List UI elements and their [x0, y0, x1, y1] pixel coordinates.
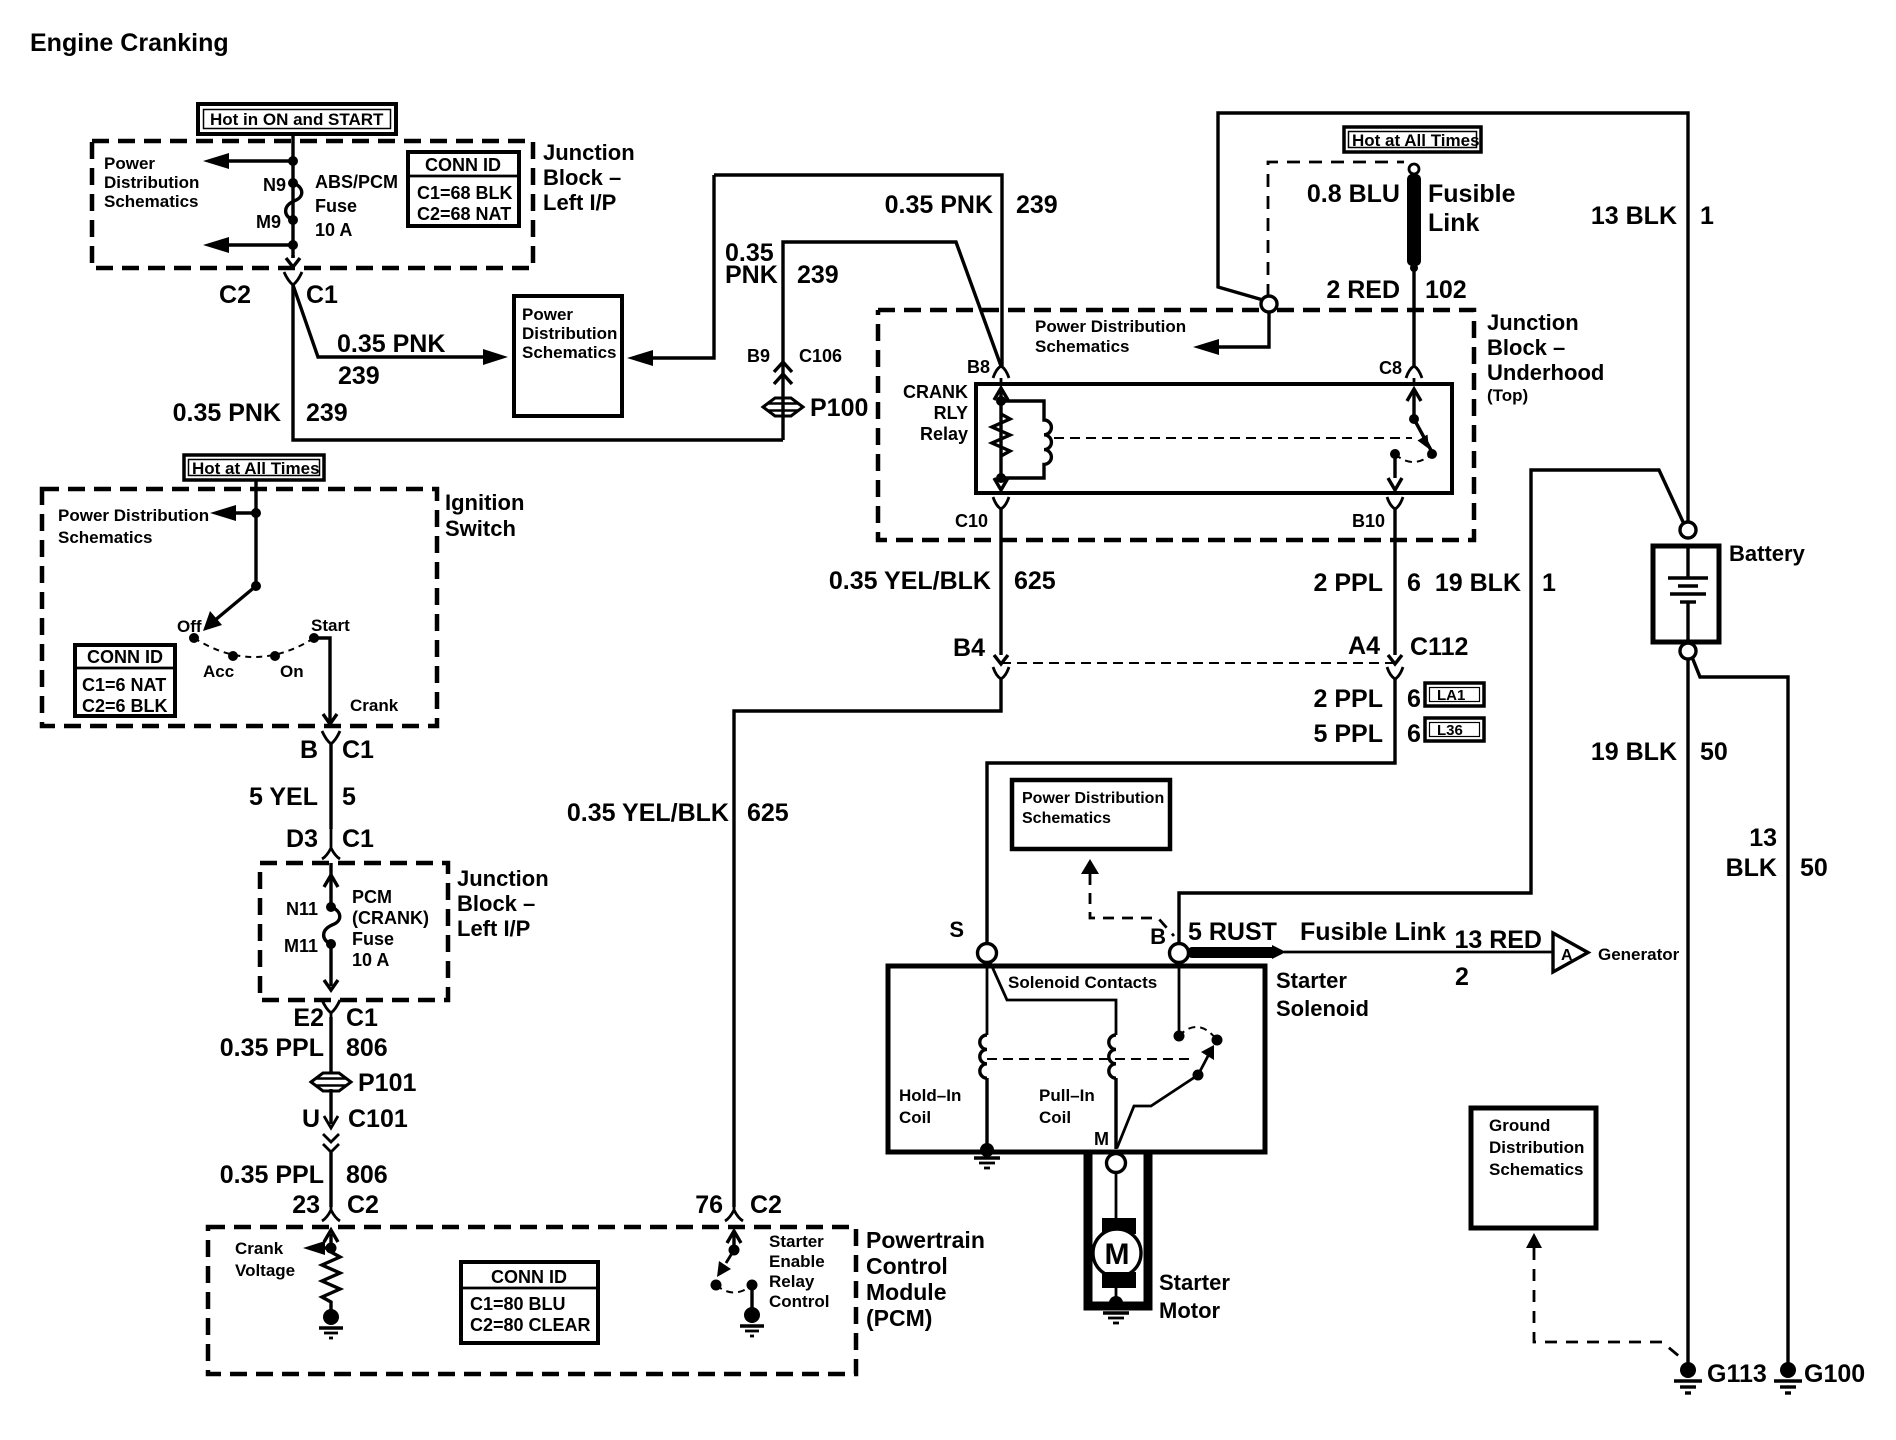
- label box Hot at All Times (left): [184, 455, 324, 480]
- svg-text:Enable: Enable: [769, 1252, 825, 1271]
- svg-text:C1: C1: [342, 825, 374, 853]
- svg-text:A4: A4: [1348, 632, 1380, 660]
- ground inside PCM (relay control): [740, 1307, 764, 1336]
- fuse ABS/PCM 10A: [286, 172, 398, 240]
- wire 13 RED 2 to generator: [1284, 926, 1553, 991]
- node N11: [286, 899, 336, 919]
- svg-text:B4: B4: [953, 634, 985, 662]
- wire 2 PPL 6 LA1 / 5 PPL 6 L36 from A4 down to S terminal: [987, 679, 1421, 944]
- ignition switch dashed box: [42, 489, 437, 726]
- wire from B8 branch into power distribution box (arrow left): [627, 175, 714, 366]
- wire S to pull-in coil: [990, 962, 1116, 1035]
- ground at starter motor: [1103, 1296, 1129, 1323]
- wire Crank output: [314, 638, 399, 724]
- svg-text:D3: D3: [286, 825, 318, 853]
- svg-text:Relay: Relay: [769, 1272, 815, 1291]
- svg-text:Module: Module: [866, 1279, 947, 1305]
- wire arrow to power distribution schematics (underhood): [1193, 312, 1269, 355]
- svg-text:0.8 BLU: 0.8 BLU: [1307, 180, 1400, 208]
- connector U/C101: [302, 1089, 408, 1152]
- wire 19 BLK 1 from battery positive to solenoid B: [1179, 470, 1684, 946]
- label box Hot in ON and START: [198, 104, 396, 134]
- svg-text:P101: P101: [358, 1069, 416, 1097]
- switch position Acc: [203, 651, 238, 681]
- label Starter Solenoid: [1276, 968, 1369, 1021]
- svg-text:C1: C1: [342, 736, 374, 764]
- label Power Distribution Schematics (JB left I/P): [104, 154, 199, 211]
- svg-text:0.35 PNK: 0.35 PNK: [173, 399, 281, 427]
- svg-text:M11: M11: [284, 936, 318, 956]
- svg-text:239: 239: [1016, 191, 1058, 219]
- switch position Start: [309, 616, 350, 643]
- power distribution schematics box (center): [1012, 780, 1170, 849]
- svg-text:LA1: LA1: [1437, 687, 1465, 704]
- connector P100 grommet: [763, 394, 868, 422]
- svg-text:Block –: Block –: [457, 891, 535, 916]
- svg-text:N9: N9: [263, 175, 286, 195]
- svg-text:M9: M9: [256, 212, 281, 232]
- svg-text:C2=68 NAT: C2=68 NAT: [417, 204, 511, 224]
- connector 23/C2 into PCM: [322, 1207, 340, 1221]
- inductor hold-in coil: [980, 1035, 987, 1149]
- svg-text:13 BLK: 13 BLK: [1591, 202, 1677, 230]
- svg-text:Coil: Coil: [1039, 1108, 1071, 1127]
- switch position On: [270, 651, 304, 681]
- wire 0.35 PNK 239 from C2 down and right: [173, 285, 783, 440]
- svg-text:B8: B8: [967, 357, 990, 377]
- ignition switch arm: [203, 581, 261, 631]
- motor M symbol: [1093, 1172, 1141, 1301]
- dashed reference from G113 to ground distribution box: [1526, 1233, 1680, 1357]
- fusible link dashed boundary: [1268, 162, 1404, 297]
- svg-text:Control: Control: [769, 1292, 829, 1311]
- svg-text:C1=80 BLU: C1=80 BLU: [470, 1294, 566, 1314]
- svg-text:Junction: Junction: [457, 866, 549, 891]
- wire into PCM CRANK fuse: [324, 863, 338, 907]
- connector B/C1 ignition switch: [300, 731, 374, 764]
- svg-text:C1=68 BLK: C1=68 BLK: [417, 183, 513, 203]
- svg-text:Pull–In: Pull–In: [1039, 1086, 1095, 1105]
- node B8: [967, 357, 1009, 384]
- wire 0.35 PNK 239 via P100 to relay B8: [725, 239, 1001, 440]
- wire 2 RED 102: [1326, 268, 1466, 366]
- svg-text:Powertrain: Powertrain: [866, 1227, 985, 1253]
- junction block - left I/P (top) dashed box: [92, 141, 533, 268]
- svg-text:Hot at All Times: Hot at All Times: [1352, 131, 1480, 150]
- svg-text:Schematics: Schematics: [58, 528, 153, 547]
- node S terminal: [949, 917, 996, 963]
- connector C2/C1 junction block output: [219, 255, 338, 309]
- svg-text:5: 5: [342, 783, 356, 811]
- wire 13 BLK 1 top run: [1218, 113, 1714, 522]
- relay coil branch with arrows: [994, 388, 1008, 490]
- inductor relay coil: [1001, 401, 1051, 478]
- power distribution schematics box (left): [514, 296, 622, 416]
- svg-text:B10: B10: [1352, 511, 1385, 531]
- ground inside PCM (crank voltage): [319, 1309, 343, 1338]
- svg-text:0.35 PNK: 0.35 PNK: [337, 330, 445, 358]
- svg-text:Block –: Block –: [1487, 335, 1565, 360]
- svg-text:C1=6 NAT: C1=6 NAT: [82, 675, 166, 695]
- powertrain control module dashed box: [208, 1227, 856, 1374]
- node M terminal: [1094, 1129, 1126, 1173]
- svg-text:CRANK: CRANK: [903, 382, 968, 402]
- svg-text:0.35 YEL/BLK: 0.35 YEL/BLK: [829, 567, 991, 595]
- relay CRANK RLY box: [976, 384, 1452, 493]
- svg-text:5 RUST: 5 RUST: [1188, 918, 1277, 946]
- svg-text:U: U: [302, 1105, 320, 1133]
- connector P101 grommet: [311, 1069, 416, 1097]
- relay switch branch: [1388, 389, 1437, 490]
- wire 2 PPL 6 / 19 BLK 1 from B10 to A4: [1314, 509, 1556, 664]
- conn id box C1=68 BLK C2=68 NAT: [408, 152, 519, 226]
- svg-text:10 A: 10 A: [352, 950, 389, 970]
- wire 0.35 PNK 239 top run to relay B8: [714, 175, 1058, 366]
- svg-text:Switch: Switch: [445, 516, 516, 541]
- svg-text:(Top): (Top): [1487, 386, 1528, 405]
- svg-text:L36: L36: [1437, 722, 1463, 739]
- wire ignition feed from Hot in ON and START: [291, 134, 294, 258]
- label Junction Block - Underhood (Top): [1487, 310, 1604, 405]
- svg-text:Link: Link: [1428, 209, 1479, 237]
- relay actuation dashed line: [1054, 437, 1412, 439]
- svg-text:ABS/PCM: ABS/PCM: [315, 172, 398, 192]
- svg-text:Power Distribution: Power Distribution: [1022, 790, 1164, 807]
- junction block - left I/P (lower) dashed box: [260, 863, 448, 1000]
- label Starter Enable Relay Control: [769, 1232, 829, 1311]
- svg-text:A: A: [1561, 947, 1573, 964]
- node B4: [953, 634, 1009, 679]
- solenoid actuation dashed line: [987, 1058, 1192, 1060]
- wire 0.35 PNK 239 from C1 to power distribution box: [293, 285, 508, 390]
- svg-text:Distribution: Distribution: [1489, 1138, 1584, 1157]
- wire 13 BLK 50 from battery negative to G100: [1692, 657, 1828, 1364]
- svg-text:Ground: Ground: [1489, 1116, 1550, 1135]
- node junction dot lower: [288, 240, 298, 250]
- svg-text:Start: Start: [311, 616, 350, 635]
- svg-text:Relay: Relay: [920, 424, 968, 444]
- wire 0.35 PPL 806 (upper): [220, 1017, 388, 1073]
- svg-text:C2=6 BLK: C2=6 BLK: [82, 696, 168, 716]
- svg-text:C2: C2: [347, 1191, 379, 1219]
- svg-text:2 PPL: 2 PPL: [1314, 569, 1383, 597]
- svg-text:Schematics: Schematics: [1035, 337, 1130, 356]
- svg-text:C2: C2: [219, 281, 251, 309]
- svg-text:M: M: [1105, 1238, 1130, 1271]
- svg-text:239: 239: [306, 399, 348, 427]
- svg-text:50: 50: [1800, 854, 1828, 882]
- fusible link 5 RUST at B terminal: [1188, 918, 1446, 959]
- label box L36: [1425, 718, 1484, 741]
- svg-text:Fusible Link: Fusible Link: [1300, 918, 1446, 946]
- wire ignition feed with arrow to power distribution: [210, 480, 261, 586]
- connector 76/C2 into PCM: [725, 1207, 743, 1221]
- label Starter Motor: [1159, 1270, 1230, 1323]
- ground at hold-in coil: [974, 1143, 1000, 1168]
- svg-text:PCM: PCM: [352, 887, 392, 907]
- svg-text:13: 13: [1749, 824, 1777, 852]
- wire arrow to power distribution (lower): [203, 237, 293, 253]
- svg-text:Power Distribution: Power Distribution: [1035, 317, 1186, 336]
- svg-text:0.35 YEL/BLK: 0.35 YEL/BLK: [567, 799, 729, 827]
- svg-text:CONN ID: CONN ID: [491, 1267, 567, 1287]
- svg-text:Hot in ON and START: Hot in ON and START: [210, 110, 384, 129]
- label Powertrain Control Module (PCM): [866, 1227, 985, 1331]
- label Junction Block - Left I/P (lower): [457, 866, 549, 941]
- svg-text:Power: Power: [104, 154, 155, 173]
- svg-text:6: 6: [1407, 720, 1421, 748]
- node N9: [263, 175, 298, 195]
- svg-text:2 PPL: 2 PPL: [1314, 685, 1383, 713]
- svg-text:Crank: Crank: [235, 1239, 284, 1258]
- svg-text:B9: B9: [747, 346, 770, 366]
- svg-text:Power: Power: [522, 305, 573, 324]
- svg-text:Solenoid: Solenoid: [1276, 996, 1369, 1021]
- svg-text:Block –: Block –: [543, 165, 621, 190]
- svg-text:Fuse: Fuse: [315, 196, 357, 216]
- svg-text:C8: C8: [1379, 358, 1402, 378]
- junction block - underhood dashed box: [878, 310, 1474, 540]
- label Junction Block - Left I/P: [543, 140, 635, 215]
- svg-text:Starter: Starter: [1276, 968, 1347, 993]
- svg-text:Battery: Battery: [1729, 541, 1806, 566]
- svg-text:2 RED: 2 RED: [1326, 276, 1400, 304]
- svg-text:C112: C112: [1410, 633, 1468, 661]
- svg-text:CONN ID: CONN ID: [87, 647, 163, 667]
- wire 19 BLK 50 from battery negative to G113: [1591, 659, 1728, 1364]
- node C10: [955, 497, 1009, 531]
- solenoid contacts switch: [1117, 963, 1223, 1148]
- svg-text:Power Distribution: Power Distribution: [58, 506, 209, 525]
- ground G113: [1674, 1360, 1767, 1393]
- svg-text:Left I/P: Left I/P: [457, 916, 530, 941]
- svg-text:76: 76: [695, 1191, 723, 1219]
- switch position arc dashed: [194, 638, 314, 657]
- svg-text:Schematics: Schematics: [104, 192, 199, 211]
- svg-text:Crank: Crank: [350, 696, 399, 715]
- svg-text:Motor: Motor: [1159, 1298, 1221, 1323]
- inductor pull-in coil: [1109, 1035, 1116, 1149]
- svg-text:BLK: BLK: [1726, 854, 1777, 882]
- svg-text:10 A: 10 A: [315, 220, 352, 240]
- svg-text:Hot at All Times: Hot at All Times: [192, 459, 320, 478]
- fusible link 0.8 BLU: [1307, 164, 1516, 272]
- svg-text:Distribution: Distribution: [522, 324, 617, 343]
- svg-text:(PCM): (PCM): [866, 1305, 932, 1331]
- svg-text:C2: C2: [750, 1191, 782, 1219]
- svg-text:Fuse: Fuse: [352, 929, 394, 949]
- svg-text:C101: C101: [348, 1105, 408, 1133]
- svg-text:Junction: Junction: [1487, 310, 1579, 335]
- svg-text:23: 23: [292, 1191, 320, 1219]
- svg-text:B: B: [1150, 924, 1166, 949]
- svg-text:Ignition: Ignition: [445, 490, 524, 515]
- svg-text:Engine Cranking: Engine Cranking: [30, 29, 229, 57]
- label box Hot at All Times (right): [1344, 127, 1481, 152]
- svg-text:P100: P100: [810, 394, 868, 422]
- wire S to hold-in coil: [986, 963, 989, 1035]
- node B terminal: [1150, 924, 1188, 963]
- generator terminal A triangle: [1553, 933, 1680, 972]
- svg-text:1: 1: [1700, 202, 1714, 230]
- svg-text:Schematics: Schematics: [1022, 810, 1111, 827]
- svg-text:Control: Control: [866, 1253, 948, 1279]
- conn id box C1=80 BLU C2=80 CLEAR: [461, 1262, 598, 1343]
- svg-text:625: 625: [1014, 567, 1056, 595]
- starter motor bracket: [1088, 1152, 1148, 1306]
- node M11: [284, 936, 336, 956]
- resistor crank voltage: [322, 1252, 340, 1310]
- svg-text:Coil: Coil: [899, 1108, 931, 1127]
- label Power Distribution Schematics (underhood): [1035, 317, 1186, 356]
- label CRANK RLY Relay: [903, 382, 968, 444]
- node M9: [256, 212, 298, 232]
- node B10: [1352, 497, 1403, 531]
- node A4 / C112 label: [1348, 632, 1468, 679]
- wire 0.35 YEL/BLK 625 from B4 to PCM 76/C2: [567, 679, 1001, 1219]
- svg-text:Junction: Junction: [543, 140, 635, 165]
- wire arrow to power distribution (upper): [203, 153, 293, 169]
- wire 5 YEL 5: [249, 744, 356, 829]
- label Ignition Switch: [445, 490, 524, 541]
- svg-text:E2: E2: [293, 1004, 324, 1032]
- label Pull-In Coil: [1039, 1086, 1095, 1127]
- svg-text:Distribution: Distribution: [104, 173, 199, 192]
- svg-text:PNK: PNK: [725, 261, 778, 289]
- conn id box C1=6 NAT C2=6 BLK: [75, 645, 175, 716]
- label Power Distribution Schematics (ignition): [58, 506, 209, 547]
- svg-text:RLY: RLY: [934, 403, 968, 423]
- svg-text:50: 50: [1700, 738, 1728, 766]
- resistor in relay: [992, 414, 1010, 456]
- node junction dot upper: [288, 156, 298, 166]
- svg-text:S: S: [949, 917, 964, 942]
- label Hold-In Coil: [899, 1086, 961, 1127]
- wire 0.35 YEL/BLK 625 from C10 to B4: [829, 509, 1056, 664]
- svg-text:5 YEL: 5 YEL: [249, 783, 318, 811]
- svg-text:C1: C1: [306, 281, 338, 309]
- svg-text:6: 6: [1407, 569, 1421, 597]
- svg-text:(CRANK): (CRANK): [352, 908, 429, 928]
- svg-text:Underhood: Underhood: [1487, 360, 1604, 385]
- svg-text:102: 102: [1425, 276, 1467, 304]
- svg-text:C106: C106: [799, 346, 842, 366]
- svg-text:Schematics: Schematics: [1489, 1160, 1584, 1179]
- svg-text:M: M: [1094, 1129, 1109, 1149]
- svg-text:On: On: [280, 662, 304, 681]
- node battery negative terminal: [1680, 643, 1696, 659]
- svg-text:Off: Off: [177, 617, 202, 636]
- svg-text:5 PPL: 5 PPL: [1314, 720, 1383, 748]
- connector C112 dashed line B4 to A4: [1001, 662, 1395, 664]
- svg-text:Starter: Starter: [1159, 1270, 1230, 1295]
- node C8: [1379, 358, 1422, 384]
- dashed reference from solenoid B to power distribution box: [1081, 859, 1174, 936]
- svg-text:Solenoid Contacts: Solenoid Contacts: [1008, 973, 1157, 992]
- svg-text:806: 806: [346, 1161, 388, 1189]
- wire fuse output: [324, 944, 338, 990]
- svg-text:C10: C10: [955, 511, 988, 531]
- svg-text:239: 239: [338, 362, 380, 390]
- svg-text:Fusible: Fusible: [1428, 180, 1516, 208]
- starter enable relay control switch: [711, 1231, 758, 1310]
- crank voltage sense input: [235, 1230, 338, 1280]
- connector E2/C1: [293, 1000, 378, 1032]
- svg-text:806: 806: [346, 1034, 388, 1062]
- ground distribution schematics box: [1471, 1108, 1596, 1228]
- label box LA1: [1425, 683, 1484, 706]
- svg-text:N11: N11: [286, 899, 318, 919]
- connector B9 C106: [747, 346, 842, 384]
- svg-text:Acc: Acc: [203, 662, 234, 681]
- svg-text:19 BLK: 19 BLK: [1591, 738, 1677, 766]
- svg-text:Voltage: Voltage: [235, 1261, 295, 1280]
- svg-text:625: 625: [747, 799, 789, 827]
- svg-text:19 BLK: 19 BLK: [1435, 569, 1521, 597]
- svg-text:0.35 PPL: 0.35 PPL: [220, 1161, 324, 1189]
- wire 0.35 PPL 806 (lower): [220, 1152, 388, 1219]
- svg-text:0.35 PNK: 0.35 PNK: [885, 191, 993, 219]
- svg-text:2: 2: [1455, 963, 1469, 991]
- svg-text:G100: G100: [1804, 1360, 1865, 1388]
- node battery positive terminal: [1680, 522, 1696, 538]
- svg-text:Schematics: Schematics: [522, 343, 617, 362]
- starter solenoid box: [888, 966, 1265, 1152]
- svg-text:C2=80 CLEAR: C2=80 CLEAR: [470, 1315, 591, 1335]
- svg-text:Left I/P: Left I/P: [543, 190, 616, 215]
- svg-text:239: 239: [797, 261, 839, 289]
- svg-text:Hold–In: Hold–In: [899, 1086, 961, 1105]
- node circle on junction block top edge: [1261, 296, 1277, 312]
- svg-text:1: 1: [1542, 569, 1556, 597]
- svg-text:6: 6: [1407, 685, 1421, 713]
- connector D3/C1: [286, 825, 374, 859]
- svg-text:G113: G113: [1707, 1360, 1767, 1388]
- svg-text:B: B: [300, 736, 318, 764]
- svg-text:Starter: Starter: [769, 1232, 824, 1251]
- ground G100: [1774, 1360, 1865, 1393]
- svg-text:C1: C1: [346, 1004, 378, 1032]
- fuse PCM (CRANK) 10A: [324, 887, 429, 970]
- svg-text:0.35 PPL: 0.35 PPL: [220, 1034, 324, 1062]
- battery: [1653, 541, 1806, 642]
- svg-text:Generator: Generator: [1598, 945, 1680, 964]
- svg-text:13 RED: 13 RED: [1454, 926, 1542, 954]
- switch position Off: [177, 617, 202, 643]
- svg-text:CONN ID: CONN ID: [425, 155, 501, 175]
